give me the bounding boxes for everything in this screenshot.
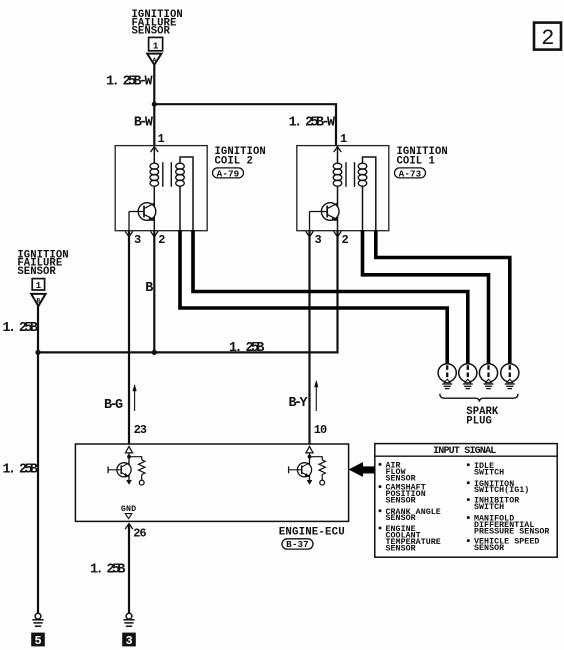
wire 1.25B from pin 26 to ground — [128, 524, 130, 613]
svg-text:1. 25B: 1. 25B — [229, 341, 264, 356]
coil 2 primary winding — [150, 146, 159, 186]
input signal arrow into ECU — [349, 462, 375, 476]
coil 2 pin 3 arrow — [125, 231, 133, 237]
coil 2 secondary bottom wire — [179, 186, 181, 231]
ECU pin 10 input arrow — [306, 446, 313, 453]
power transistor inside coil 2 — [129, 203, 156, 221]
svg-text:SWITCH: SWITCH — [474, 468, 504, 477]
svg-text:2: 2 — [541, 26, 554, 51]
svg-text:SENSOR: SENSOR — [386, 496, 416, 505]
svg-text:ENGINE-ECU: ENGINE-ECU — [279, 527, 345, 539]
wire 1.25B left vertical run — [37, 306, 39, 613]
svg-text:PLUG: PLUG — [466, 415, 492, 427]
ground symbol 5 — [32, 613, 43, 626]
svg-text:1: 1 — [158, 132, 165, 146]
HV lead coil 2 secondary B to spark plug 2 — [193, 230, 468, 365]
ground reference box 5 — [31, 633, 45, 648]
coil 1 secondary winding — [358, 163, 367, 186]
coil 2 base wire down to pin 3 — [128, 212, 130, 231]
wire B from coil 2 pin 2 down to 1.25B bus — [153, 231, 155, 352]
svg-text:10: 10 — [314, 423, 327, 437]
input signal item: VEHICLE SPEED — [467, 538, 540, 553]
SPARK PLUG label — [466, 406, 499, 427]
svg-text:COIL 2: COIL 2 — [215, 155, 253, 167]
HV lead coil 2 secondary A to spark plug 1 — [180, 230, 447, 365]
svg-text:SWITCH(IG1): SWITCH(IG1) — [474, 485, 529, 495]
connector code A-79 — [213, 168, 244, 179]
ECU driver transistor at pin 23 — [108, 463, 131, 477]
input signal box — [375, 444, 557, 558]
svg-text:COIL 1: COIL 1 — [397, 155, 435, 167]
wire from coil 1 pin 2 down to 1.25B bus elbow — [336, 231, 338, 354]
wire 1.25B horizontal bus — [38, 351, 338, 353]
coil 2 pin 1 arrow — [151, 147, 159, 153]
svg-text:A: A — [152, 57, 156, 64]
connector code B-37 — [282, 539, 313, 550]
svg-text:B: B — [145, 281, 153, 296]
svg-text:B-G: B-G — [104, 398, 123, 413]
ground symbol 3 — [123, 613, 134, 626]
ignition coil box 1 outline — [297, 146, 389, 231]
svg-text:3: 3 — [315, 233, 322, 247]
coil 2 pin 2 arrow — [151, 231, 159, 237]
svg-text:5: 5 — [34, 634, 41, 648]
ECU internal junction at pin 23 — [127, 455, 131, 459]
ECU internal stem at pin 10 — [309, 453, 311, 480]
svg-text:1: 1 — [36, 281, 42, 291]
connector pin box 1 (left sensor) — [32, 279, 44, 292]
svg-text:SENSOR: SENSOR — [386, 514, 416, 523]
ECU internal ground arrow at pin 10 — [307, 480, 312, 484]
junction node (B-W split) — [152, 102, 157, 107]
input signal item: CRANK ANGLE — [379, 508, 441, 523]
svg-text:1. 25B-W: 1. 25B-W — [106, 75, 153, 90]
wire down to coil 1 pin 1 — [335, 103, 337, 146]
svg-text:GND: GND — [121, 505, 137, 514]
svg-text:PRESSURE SENSOR: PRESSURE SENSOR — [474, 527, 549, 536]
ECU pin 26 arrow — [125, 524, 133, 530]
input signal item: AIR — [379, 461, 416, 483]
svg-text:B-37: B-37 — [286, 539, 309, 550]
svg-text:1: 1 — [153, 41, 159, 52]
coil 1 secondary bottom wire — [362, 186, 364, 231]
connector triangle A (top sensor) — [147, 54, 161, 65]
ECU internal ground arrow at pin 23 — [127, 480, 132, 484]
COIL 1 label — [397, 146, 448, 167]
coil 1 primary winding — [333, 146, 342, 186]
input signal item: MANIFOLD — [467, 515, 550, 537]
coil 1 primary bottom wire to pin 2 — [337, 186, 339, 231]
page number box 2 — [534, 23, 561, 51]
COIL 2 label — [215, 146, 266, 167]
ECU GND label — [121, 505, 137, 518]
connector triangle B (left sensor) — [31, 294, 45, 306]
svg-text:SENSOR: SENSOR — [474, 544, 504, 553]
ECU pull-up resistor at pin 10 — [310, 457, 326, 485]
ignition failure sensor (left) label — [17, 249, 68, 278]
svg-text:SENSOR: SENSOR — [17, 266, 56, 278]
HV lead coil 1 secondary B to spark plug 4 — [376, 230, 510, 365]
signal direction arrow (B-G) — [133, 385, 137, 411]
svg-text:SENSOR: SENSOR — [132, 26, 171, 38]
svg-text:26: 26 — [133, 527, 146, 541]
spark plug 4 — [501, 364, 519, 389]
ECU pin 23 input arrow — [125, 446, 132, 453]
ECU internal junction at pin 10 — [308, 455, 312, 459]
svg-text:2: 2 — [342, 233, 349, 247]
wire B-G from coil 2 pin 3 down to ECU pin 23 — [128, 231, 130, 444]
svg-text:23: 23 — [134, 423, 147, 437]
wire B-Y from coil 1 pin 3 down to ECU pin 10 — [308, 231, 310, 444]
wire horizontal to ignition coil 1 — [153, 103, 336, 105]
svg-text:B: B — [37, 297, 41, 304]
input signal item: ENGINE — [379, 525, 441, 553]
ECU pull-up resistor at pin 23 — [129, 457, 145, 485]
coil 1 core bars — [346, 162, 355, 187]
coil 2 secondary top wire to HV output — [180, 157, 193, 231]
ground reference box 3 — [122, 633, 136, 648]
input signal item: CAMSHAFT — [379, 484, 426, 506]
spark plug 1 — [438, 364, 456, 389]
coil 1 pin 2 arrow — [334, 231, 342, 237]
input signal item: INHIBITOR — [467, 497, 519, 512]
svg-text:3: 3 — [125, 634, 132, 648]
coil 1 base wire down to pin 3 — [309, 212, 311, 231]
wire B-W down to coil 2 pin 1 — [153, 104, 155, 146]
engine ECU box outline — [75, 444, 348, 521]
coil 2 core bars — [163, 162, 172, 187]
spark plug 3 — [479, 364, 497, 389]
coil 1 pin 1 arrow — [334, 147, 342, 153]
spark plug 2 — [459, 364, 477, 389]
svg-text:INPUT SIGNAL: INPUT SIGNAL — [433, 446, 496, 457]
svg-text:A-79: A-79 — [217, 168, 240, 179]
connector pin box 1 (top sensor) — [149, 37, 163, 51]
connector code A-73 — [395, 168, 426, 179]
coil 2 primary bottom wire to pin 2 — [153, 186, 155, 231]
svg-text:SENSOR: SENSOR — [386, 544, 416, 553]
power transistor inside coil 1 — [310, 203, 340, 221]
svg-text:SWITCH: SWITCH — [474, 503, 504, 512]
svg-text:SENSOR: SENSOR — [386, 474, 416, 483]
ignition coil box 2 outline — [115, 146, 207, 231]
coil 1 pin 3 arrow — [306, 231, 314, 237]
junction node coil 2 pin 2 to bus — [152, 350, 157, 355]
svg-text:A-73: A-73 — [399, 168, 422, 179]
HV lead coil 1 secondary A to spark plug 3 — [363, 230, 489, 365]
wire 1.25B-W from top sensor down to junction — [153, 65, 155, 105]
coil 1 secondary top wire to HV output — [363, 157, 376, 231]
ECU internal stem at pin 23 — [128, 453, 130, 480]
input signal item: IDLE — [467, 462, 504, 477]
svg-text:B-Y: B-Y — [289, 396, 309, 411]
svg-text:3: 3 — [134, 233, 141, 247]
svg-text:1. 25B-W: 1. 25B-W — [289, 116, 336, 131]
svg-text:2: 2 — [158, 233, 165, 247]
ignition failure sensor (top) label — [132, 9, 183, 38]
junction node on left 1.25B wire — [35, 350, 40, 355]
svg-text:1. 25B: 1. 25B — [90, 562, 125, 577]
input signal title separator — [375, 455, 557, 457]
spark plug brace — [440, 394, 518, 402]
svg-text:B-W: B-W — [134, 115, 154, 130]
signal direction arrow (B-Y) — [315, 381, 319, 411]
coil 2 secondary winding — [176, 163, 185, 186]
svg-text:1. 25B: 1. 25B — [3, 462, 38, 477]
ECU driver transistor at pin 10 — [289, 463, 312, 477]
svg-text:1: 1 — [340, 132, 347, 146]
input signal item: IGNITION — [467, 480, 530, 495]
svg-text:1. 25B: 1. 25B — [2, 321, 37, 336]
